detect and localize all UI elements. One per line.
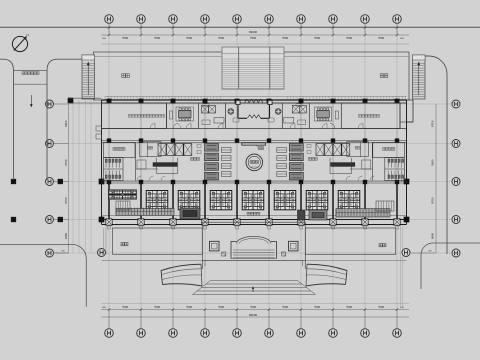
svg-text:7500: 7500 xyxy=(154,305,161,309)
svg-text:7500: 7500 xyxy=(154,36,161,40)
svg-text:69600: 69600 xyxy=(249,313,258,317)
svg-text:8700: 8700 xyxy=(431,120,435,127)
svg-text:N: N xyxy=(26,33,28,37)
svg-text:7500: 7500 xyxy=(378,36,385,40)
svg-text:8700: 8700 xyxy=(431,197,435,204)
svg-text:7500: 7500 xyxy=(186,305,193,309)
svg-text:7500: 7500 xyxy=(282,305,289,309)
svg-text:7500: 7500 xyxy=(314,305,321,309)
svg-text:9400: 9400 xyxy=(431,232,435,239)
svg-text:7500: 7500 xyxy=(346,36,353,40)
svg-text:7500: 7500 xyxy=(250,36,257,40)
svg-text:9600: 9600 xyxy=(431,159,435,166)
svg-text:7500: 7500 xyxy=(218,36,225,40)
svg-text:7500: 7500 xyxy=(314,36,321,40)
svg-text:9400: 9400 xyxy=(64,232,68,239)
svg-text:69600: 69600 xyxy=(249,30,258,34)
svg-text:9600: 9600 xyxy=(64,120,68,127)
svg-text:8700: 8700 xyxy=(64,197,68,204)
svg-text:7500: 7500 xyxy=(186,36,193,40)
svg-text:7500: 7500 xyxy=(378,305,385,309)
svg-text:7500: 7500 xyxy=(346,305,353,309)
svg-text:7500: 7500 xyxy=(218,305,225,309)
svg-text:8700: 8700 xyxy=(64,159,68,166)
svg-text:7500: 7500 xyxy=(282,36,289,40)
svg-text:7500: 7500 xyxy=(122,305,129,309)
svg-text:7500: 7500 xyxy=(122,36,129,40)
svg-text:7500: 7500 xyxy=(250,305,257,309)
